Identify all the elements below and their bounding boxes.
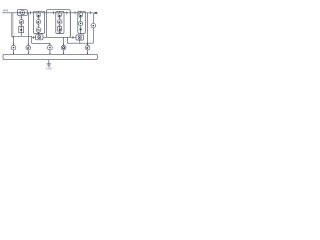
drop to I0 from rails (13, 36, 15, 45)
source A3 (36, 28, 41, 33)
wire (59, 11, 61, 33)
terminal bar (18, 12, 20, 14)
port tick lower (72, 36, 74, 39)
port tick (74, 11, 76, 14)
node tap wire to I2 (27, 13, 29, 45)
port ticks ellipsis (89, 11, 91, 14)
tee mark (37, 32, 39, 33)
wire stub to I5 drop (80, 13, 88, 45)
current source I3 (48, 45, 53, 50)
arrowheads at bus (13, 53, 88, 54)
rail right (92, 13, 94, 43)
wire L to I3 (32, 36, 50, 45)
wire rail left outer (12, 13, 32, 37)
wire (38, 11, 40, 35)
wire lower left (32, 36, 47, 38)
arrowhead (28, 44, 30, 45)
arrowhead (13, 44, 15, 45)
block A source (37, 13, 40, 16)
source C2 (79, 21, 83, 25)
block B3 (58, 27, 62, 31)
current source I0 (11, 45, 16, 50)
meter box C2 (76, 35, 84, 40)
current source I2 (26, 45, 31, 50)
port tick (52, 11, 54, 14)
ground (48, 60, 50, 64)
meter M right (91, 23, 96, 28)
subsystem box C (78, 11, 86, 33)
source A2 (36, 19, 41, 24)
source B2 (57, 19, 62, 24)
wire (80, 11, 82, 33)
subsystem box B (56, 11, 64, 33)
block C3 glyph (80, 28, 82, 30)
source V1 (20, 10, 25, 15)
wire rail left inner (12, 13, 15, 38)
drop from box B bottom (66, 37, 68, 43)
bus bar box (3, 54, 97, 59)
rail mid right (70, 13, 76, 38)
source I1 (19, 20, 24, 25)
arrowhead (49, 44, 51, 45)
battery cell box B1 (17, 10, 27, 16)
block Q1 (19, 27, 24, 33)
terminal block right end (95, 12, 98, 14)
port tick lower (33, 36, 35, 39)
block C source (79, 13, 82, 16)
current source I5 (85, 45, 90, 50)
stems from sources to bus (14, 50, 88, 54)
wire lower right net (64, 37, 94, 45)
subsystem box A (33, 11, 44, 33)
wire chain cell1 (21, 15, 23, 36)
wire main top bus y=12.8 (2, 12, 93, 14)
meter box A2 (36, 35, 43, 40)
current source I4 (61, 45, 66, 50)
tee mark (59, 32, 61, 34)
block B source (58, 13, 61, 16)
port tick right of B (66, 11, 68, 14)
arrowhead (87, 44, 89, 45)
outer subsystem box cell3 (47, 10, 71, 38)
port tick (30, 11, 32, 14)
arrowhead (63, 44, 65, 45)
svg-text:4R6: 4R6 (3, 9, 9, 13)
svg-text:GND: GND (46, 67, 52, 71)
